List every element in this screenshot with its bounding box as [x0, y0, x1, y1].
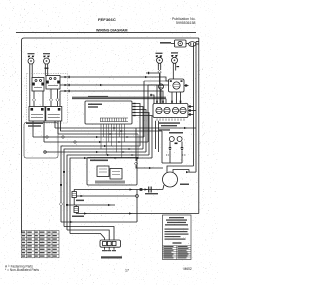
connector on y91: [65, 90, 68, 92]
connector diamond RR: [158, 70, 161, 73]
oven light wire: [171, 43, 175, 45]
stub tick marks: [133, 103, 135, 116]
wire y205: [68, 204, 115, 206]
legend box: [163, 215, 192, 260]
timer contact 4: [180, 107, 186, 113]
bake circuit wire y189.5: [74, 189, 163, 191]
oven light box: [175, 40, 187, 47]
wire bake to motor: [163, 185, 164, 190]
wire lamp to receptacle: [186, 43, 189, 45]
surface unit RR terminals: [156, 55, 162, 57]
control board P1: [85, 101, 132, 124]
table cell text marks: [22, 232, 57, 257]
junction node at 137: [136, 195, 139, 198]
timer right stubs: [188, 106, 194, 108]
relay 2: [110, 169, 122, 180]
board stub wires right: [132, 104, 140, 147]
surface unit LF: [28, 58, 34, 64]
wire stub y95: [150, 95, 154, 104]
wire x139 drop: [136, 190, 138, 195]
wire L2 right vertical outer: [198, 38, 200, 214]
supply wire N to block: [67, 230, 109, 240]
latch label: [26, 123, 43, 125]
bundle double wire y97: [72, 96, 166, 98]
wire right vertical inner: [193, 45, 195, 166]
oven control box: [87, 158, 137, 186]
timer motor 1: [156, 107, 162, 113]
wire run y86: [60, 85, 157, 104]
wire y131: [61, 130, 163, 132]
label on bundle: [88, 96, 108, 97]
wire RR down b: [160, 63, 162, 70]
surface unit LF label: [28, 53, 35, 54]
wire LF down a: [29, 64, 31, 107]
wire receptacle to N: [196, 43, 199, 45]
RF lower connector: [45, 68, 49, 70]
supply wire L1 to block: [64, 227, 114, 241]
wire N right vertical middle: [195, 42, 197, 173]
surface unit LF terminals: [28, 56, 34, 58]
board terminal strip: [100, 118, 128, 122]
wires relay box down: [171, 92, 173, 104]
timer pin row: [157, 119, 184, 121]
aux label under timer: [158, 129, 170, 130]
wire y163: [162, 162, 182, 164]
timer contact 3: [172, 107, 178, 113]
wires switch to lower boxes: [33, 91, 35, 98]
wire LR down b: [175, 63, 177, 70]
surface unit LR: [172, 57, 178, 63]
thermal fuse: [73, 190, 75, 192]
surface unit RR: [157, 57, 163, 63]
wire RF down b: [47, 64, 49, 72]
scan noise overlay: [0, 0, 1, 1]
wire y222: [61, 221, 137, 223]
wire LF down b: [31, 64, 33, 78]
junction arrows on bundle: [96, 127, 133, 158]
wire run y77 to right side: [60, 77, 169, 81]
wire L1 left border: [22, 38, 199, 233]
door lock label: [169, 132, 183, 134]
connector diamonds under switches: [32, 98, 35, 101]
timer motor 2: [164, 107, 170, 113]
relay coil circle: [158, 84, 163, 89]
connector marks above timer: [156, 101, 181, 103]
wire top corner jog: [196, 41, 199, 43]
connector pair left: [168, 146, 171, 148]
oven light label: [160, 42, 171, 44]
door lock switches: [169, 137, 174, 142]
wire RF down a: [44, 64, 46, 76]
door lock wires: [169, 142, 171, 147]
surface unit RF terminals: [43, 56, 49, 58]
junction node on y152: [44, 151, 46, 153]
infinite switch 2: [46, 76, 60, 90]
surface unit LR terminals: [171, 55, 177, 57]
wire RF down b cont: [47, 72, 49, 76]
part number text: [101, 256, 122, 258]
wire RR down a: [157, 63, 159, 70]
surface unit LR label: [171, 52, 178, 53]
wire RR to latch cluster: [159, 74, 161, 84]
switch lower block 1: [29, 107, 45, 122]
motor label: [180, 184, 189, 186]
control bottom strip: [95, 181, 125, 184]
bundle wires y146-158: [61, 146, 140, 222]
convection motor: [163, 172, 178, 187]
oven sensor symbol: [75, 205, 77, 207]
oven light bulb: [178, 41, 182, 45]
connector pair right: [180, 146, 183, 148]
wire LR down a: [172, 63, 174, 79]
surface switch enclosure (dashed): [27, 74, 68, 124]
bake element: [148, 187, 149, 193]
connector right of relay box: [184, 85, 189, 87]
wire run y91: [60, 91, 163, 104]
switch lower block 2: [46, 107, 62, 122]
wire y213.5: [76, 213, 199, 215]
connector on y86: [65, 84, 68, 86]
pin drop wires: [101, 127, 124, 158]
wire color code table: [21, 231, 59, 258]
wire y142 with diamond: [44, 141, 148, 143]
broil return wire y196: [76, 195, 135, 197]
wire stub y85: [148, 84, 169, 86]
surface unit RR label: [156, 53, 163, 54]
bake relay box: [169, 79, 185, 92]
relay 1: [97, 166, 109, 177]
connector on y77: [65, 76, 68, 78]
vertical x166 into control: [165, 99, 167, 104]
wire y128 with connector: [55, 127, 196, 129]
motor wires up: [167, 166, 194, 172]
lamp receptacle: [189, 42, 196, 47]
wire stub y73: [146, 73, 160, 104]
connector on motor wire: [186, 171, 189, 173]
wire relay down: [160, 89, 162, 103]
timer label: [159, 122, 180, 124]
board pins below: [101, 124, 124, 127]
bake relay contact: [173, 82, 180, 89]
supply wire L2 to block: [70, 234, 104, 241]
LR tick: [177, 66, 180, 67]
surface unit RF: [44, 58, 50, 64]
left riser wires: [32, 121, 34, 137]
connector diamond on riser: [59, 202, 62, 205]
surface unit RF label: [43, 53, 50, 54]
legend table: [163, 246, 192, 260]
timer cluster box: [153, 104, 188, 118]
wire y137 with diamonds: [33, 136, 144, 138]
riser connector marks: [60, 171, 68, 206]
wire x136 drop with diamond: [135, 128, 137, 161]
wire y134: [58, 133, 138, 135]
terminal block: [100, 240, 121, 247]
connector on bake wire: [130, 188, 133, 190]
header rule: [16, 31, 196, 33]
wire stub y81: [143, 81, 145, 137]
B2 bottom drop wires: [155, 121, 157, 149]
infinite switch 1: [32, 78, 44, 92]
door switch enclosure: [24, 123, 58, 159]
